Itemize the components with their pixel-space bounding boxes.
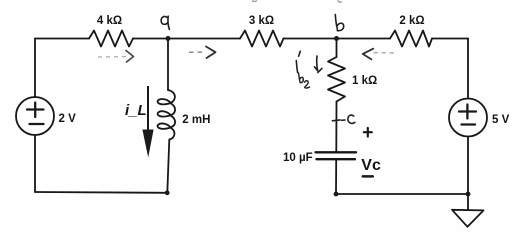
- current label i_b subscript b: [299, 73, 304, 83]
- wire bottom-left horizontal: [35, 191, 167, 194]
- svg-text:10 µF: 10 µF: [283, 152, 313, 164]
- V1 plus sign: [27, 103, 44, 118]
- capacitor plus polarity: [364, 128, 372, 137]
- junction node b dot: [334, 36, 339, 41]
- node c dash: [342, 119, 346, 121]
- capacitor C bottom plate: [317, 158, 356, 160]
- voltage source V1 2V circle: [16, 97, 54, 135]
- node b handwritten label: [335, 15, 343, 31]
- wire between 4k and node a: [133, 38, 168, 40]
- svg-text:i_L: i_L: [125, 102, 147, 119]
- junction ground dot: [466, 192, 471, 197]
- resistor R 3k zigzag: [240, 31, 284, 47]
- svg-text:2 V: 2 V: [59, 113, 77, 125]
- wire 1k to capacitor top plate: [335, 102, 337, 152]
- wire node a to 3k: [168, 38, 240, 40]
- svg-text:4 kΩ: 4 kΩ: [97, 15, 122, 27]
- wire left vertical upper: [34, 39, 36, 98]
- junction inductor bottom dot: [165, 190, 170, 195]
- resistor R 4k zigzag: [89, 31, 133, 47]
- wire coil bottom to bottom wire: [167, 140, 169, 193]
- svg-text:Vc: Vc: [361, 157, 381, 174]
- resistor R 2k zigzag: [390, 31, 432, 47]
- V2 plus sign: [459, 105, 476, 119]
- dashed current arrow right of node a: [189, 47, 216, 59]
- inductor L 2mH coil: [158, 90, 175, 140]
- wire right vertical lower: [467, 137, 469, 210]
- svg-text:3 kΩ: 3 kΩ: [249, 15, 274, 27]
- stray mark top edge right: [338, 1, 342, 3]
- ground symbol: [452, 210, 484, 227]
- current arrow i_L head: [142, 130, 153, 158]
- current label i_b apostrophe: [299, 51, 301, 56]
- svg-text:2 mH: 2 mH: [182, 114, 210, 126]
- V1 minus sign: [30, 123, 44, 125]
- capacitor C top plate: [316, 151, 357, 153]
- svg-text:5 V: 5 V: [492, 114, 510, 126]
- wire top-left horizontal: [35, 38, 89, 40]
- junction node a dot: [166, 36, 171, 41]
- capacitor minus polarity: [363, 175, 373, 178]
- wire bottom-right horizontal: [336, 193, 468, 195]
- wire left vertical lower: [34, 135, 36, 192]
- node c handwritten label: [348, 115, 355, 123]
- voltage source V2 5V circle: [449, 99, 487, 137]
- dashed current arrow under 4k: [98, 51, 134, 63]
- stray mark top edge left: [252, 0, 257, 2]
- node a handwritten label: [161, 16, 169, 29]
- wire 3k to node b: [284, 38, 337, 40]
- wire capacitor to bottom wire: [335, 160, 337, 194]
- V2 minus sign: [462, 123, 476, 125]
- current label i_b stem: [296, 61, 297, 73]
- junction capacitor bottom dot: [334, 192, 339, 197]
- svg-text:2 kΩ: 2 kΩ: [399, 15, 424, 27]
- dashed current arrow pointing left near 2k: [363, 49, 395, 60]
- wire node b vertical to 1k: [336, 39, 338, 58]
- current label i_b subscript 2: [305, 81, 310, 88]
- wire node b to 2k: [337, 38, 391, 40]
- node c tick on wire: [332, 119, 340, 122]
- wire 2k to right corner: [432, 38, 468, 40]
- svg-text:1 kΩ: 1 kΩ: [352, 75, 377, 87]
- current arrow i_L shaft: [147, 86, 149, 131]
- wire right vertical upper: [467, 39, 469, 99]
- wire node a vertical to coil: [167, 39, 169, 91]
- handwritten down arrow for i_b: [314, 56, 322, 73]
- resistor R 1k vertical zigzag: [328, 57, 345, 102]
